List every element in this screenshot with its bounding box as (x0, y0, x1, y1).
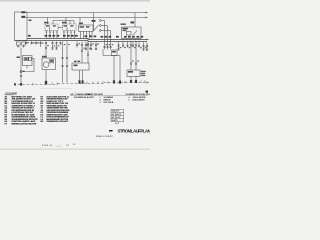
pin wires down (104, 21, 106, 40)
wire W4 (66, 42, 68, 83)
E1 label (17, 57, 20, 59)
jumper wire top (53, 20, 74, 22)
wire W2 (45, 41, 47, 58)
below-bus connector stubs mid (85, 42, 97, 50)
color table header (71, 93, 153, 96)
legend column 1 (5, 95, 39, 125)
below-bus connector stubs left (25, 41, 62, 50)
wire W6 cluster (104, 39, 106, 49)
sheet number (109, 130, 113, 132)
wire W5c (87, 42, 89, 63)
drop rail15 to K2 (65, 18, 67, 25)
svg-text:ROT-GELB: ROT-GELB (104, 102, 114, 104)
ground ticks (14, 80, 145, 85)
connector circle (20, 71, 22, 73)
relay K4 (134, 13, 136, 28)
unit E4 (127, 70, 140, 77)
svg-text:B 127: B 127 (116, 117, 120, 119)
svg-text:BREMSLICHTSCHALTER: BREMSLICHTSCHALTER (12, 122, 37, 125)
header corner mark (146, 91, 148, 93)
drop rail15 to K1 (47, 18, 49, 25)
E1 side wire (22, 59, 34, 72)
legend column 2 (41, 96, 70, 123)
svg-text:8 5: 8 5 (73, 144, 76, 146)
below-bus connector stubs right (117, 42, 148, 51)
wire 30 drop (93, 13, 95, 26)
terminal square 1 (16, 42, 20, 45)
svg-text:BLAU-WEISS: BLAU-WEISS (133, 99, 146, 102)
unit E3 (112, 50, 118, 56)
wire W5b (81, 42, 83, 63)
relay K1 (45, 24, 58, 31)
bus line 1 (27, 39, 147, 40)
wire W3 (62, 42, 64, 83)
K3 pins (80, 32, 82, 40)
svg-text:5: 5 (129, 100, 130, 102)
rail 30 (21, 12, 146, 14)
wire to unit E3 (102, 49, 104, 56)
K4 pins (122, 39, 124, 41)
unit E1 (23, 56, 33, 66)
svg-text:3: 3 (100, 102, 101, 104)
ground rail 31 (14, 84, 58, 86)
label 15 (22, 16, 26, 18)
fuse box F (15, 12, 28, 40)
wire W5a (76, 42, 78, 48)
relay K2 (63, 24, 77, 31)
relay K3 (79, 25, 94, 32)
pin number blobs under K1 K2 (46, 32, 75, 33)
K2 pins (63, 31, 65, 39)
label X (29, 20, 32, 22)
wire K1-K2 link (58, 26, 63, 28)
stamp box (111, 109, 124, 123)
terminal stubs (17, 45, 19, 47)
color table rows (74, 96, 146, 104)
svg-text:GEZ 09.70: GEZ 09.70 (112, 111, 120, 113)
svg-text:SCHWARZ-BLAU-ROT: SCHWARZ-BLAU-ROT (74, 96, 95, 99)
wire number blobs (27, 42, 146, 61)
wire W1 left drop (20, 48, 22, 84)
terminal square 2 (22, 42, 26, 45)
rail 30 arrowhead (146, 12, 149, 14)
switch contact S1 (94, 25, 99, 31)
K2 label (62, 22, 67, 24)
M1 label (42, 56, 47, 58)
rail 15 arrowhead (146, 17, 149, 19)
K1 label (44, 22, 49, 24)
label 30 (22, 11, 26, 13)
ground junction (45, 81, 47, 85)
K1 pins (46, 31, 48, 39)
motor M1 (42, 58, 56, 70)
unit E2 (72, 63, 89, 70)
svg-text:STAND 09.70 BLATT: STAND 09.70 BLATT (96, 135, 114, 138)
M1 ground wire (45, 70, 47, 83)
legend rule (40, 87, 72, 89)
svg-text:GE: GE (112, 114, 114, 116)
bus line 2 (15, 41, 148, 42)
svg-text:8 14 04 - 14: 8 14 04 - 14 (42, 145, 52, 147)
rail 15 (21, 17, 146, 19)
switch pins with circles (100, 20, 102, 22)
E4 labels right (141, 71, 146, 72)
bus labels (28, 32, 143, 38)
svg-text:STROMLAUFPLAN: STROMLAUFPLAN (118, 128, 151, 133)
unit E4 wires (130, 41, 132, 70)
svg-text:ZUENDSCHLOSS 4ST: ZUENDSCHLOSS 4ST (47, 120, 69, 123)
